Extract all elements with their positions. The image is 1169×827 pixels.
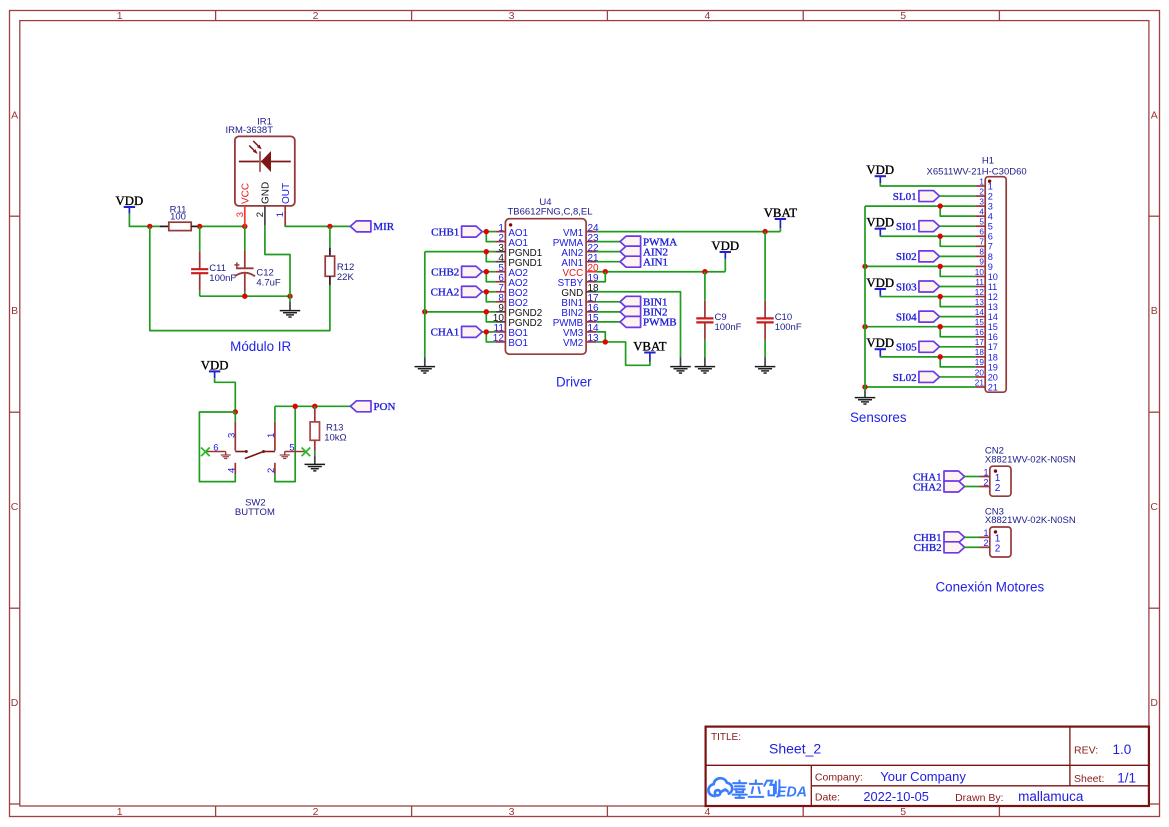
svg-text:6: 6 — [213, 442, 218, 453]
svg-text:CHA2: CHA2 — [913, 481, 942, 493]
svg-text:1/1: 1/1 — [1117, 770, 1136, 785]
svg-text:1: 1 — [983, 528, 988, 538]
svg-text:5: 5 — [900, 806, 906, 818]
svg-text:SI01: SI01 — [896, 221, 917, 233]
svg-text:VM2: VM2 — [563, 338, 583, 349]
svg-text:Conexión Motores: Conexión Motores — [936, 580, 1045, 595]
svg-text:15: 15 — [988, 322, 998, 332]
svg-text:13: 13 — [975, 298, 985, 307]
svg-text:2: 2 — [313, 10, 319, 22]
svg-text:14: 14 — [975, 308, 985, 317]
svg-text:Your Company: Your Company — [880, 769, 966, 784]
svg-text:8: 8 — [988, 252, 993, 262]
svg-text:20: 20 — [975, 368, 985, 377]
svg-text:IRM-3638T: IRM-3638T — [226, 125, 274, 136]
svg-text:21: 21 — [988, 382, 998, 392]
svg-text:D: D — [11, 697, 19, 709]
svg-text:2: 2 — [995, 483, 1001, 494]
svg-text:3: 3 — [509, 806, 515, 818]
svg-text:SL02: SL02 — [893, 372, 917, 384]
svg-text:16: 16 — [988, 332, 998, 342]
svg-text:7: 7 — [988, 242, 993, 252]
svg-text:12: 12 — [975, 288, 985, 297]
svg-text:VBAT: VBAT — [633, 340, 667, 354]
svg-text:VDD: VDD — [866, 163, 894, 177]
svg-text:4: 4 — [704, 10, 710, 22]
svg-text:3: 3 — [226, 433, 237, 438]
svg-text:Drawn By:: Drawn By: — [955, 792, 1003, 804]
svg-text:5: 5 — [289, 442, 294, 453]
svg-text:11: 11 — [975, 278, 984, 287]
svg-text:VCC: VCC — [240, 183, 251, 204]
svg-text:VDD: VDD — [866, 216, 894, 230]
svg-text:2: 2 — [255, 212, 266, 217]
svg-text:2: 2 — [983, 477, 988, 487]
svg-text:Driver: Driver — [556, 374, 592, 389]
svg-text:CHA2: CHA2 — [431, 287, 460, 299]
svg-text:2: 2 — [979, 187, 984, 196]
svg-text:5: 5 — [988, 222, 993, 232]
svg-text:BO1: BO1 — [508, 338, 528, 349]
svg-text:Sheet_2: Sheet_2 — [769, 740, 821, 756]
svg-text:SI05: SI05 — [896, 342, 917, 354]
svg-text:BUTTOM: BUTTOM — [235, 507, 275, 518]
svg-text:6: 6 — [979, 228, 984, 237]
svg-text:7: 7 — [979, 238, 984, 247]
svg-text:Módulo IR: Módulo IR — [230, 339, 291, 354]
svg-text:8: 8 — [979, 248, 984, 257]
svg-text:OUT: OUT — [281, 183, 292, 204]
svg-text:PON: PON — [373, 401, 395, 413]
svg-text:C: C — [11, 501, 19, 513]
svg-text:PWMB: PWMB — [643, 317, 677, 329]
svg-text:VDD: VDD — [116, 194, 144, 208]
svg-text:1: 1 — [275, 212, 286, 217]
svg-text:4: 4 — [226, 468, 237, 473]
svg-text:1: 1 — [117, 10, 123, 22]
svg-text:12: 12 — [988, 292, 998, 302]
svg-text:B: B — [11, 305, 18, 317]
svg-text:21: 21 — [975, 378, 985, 387]
svg-text:3: 3 — [988, 202, 993, 212]
svg-text:100nF: 100nF — [209, 273, 236, 284]
svg-text:B: B — [1151, 305, 1158, 317]
svg-text:REV:: REV: — [1074, 745, 1098, 757]
svg-text:Sheet:: Sheet: — [1074, 773, 1104, 785]
svg-text:Company:: Company: — [815, 772, 863, 784]
svg-text:VDD: VDD — [866, 276, 894, 290]
svg-text:16: 16 — [975, 328, 985, 337]
svg-text:1: 1 — [117, 806, 123, 818]
svg-text:CHB1: CHB1 — [431, 226, 459, 238]
svg-text:1: 1 — [988, 181, 993, 191]
svg-text:22K: 22K — [337, 272, 355, 283]
svg-text:MIR: MIR — [373, 221, 394, 233]
svg-text:1: 1 — [979, 177, 984, 186]
svg-text:CHB2: CHB2 — [431, 267, 459, 279]
svg-text:20: 20 — [988, 372, 998, 382]
svg-text:4: 4 — [704, 806, 710, 818]
svg-text:A: A — [1151, 109, 1158, 121]
svg-text:CHA1: CHA1 — [431, 327, 460, 339]
svg-text:9: 9 — [979, 258, 984, 267]
svg-text:GND: GND — [261, 182, 272, 204]
svg-text:mallamuca: mallamuca — [1018, 789, 1084, 804]
svg-text:3: 3 — [979, 197, 984, 206]
svg-text:14: 14 — [988, 312, 998, 322]
svg-text:X6511WV-21H-C30D60: X6511WV-21H-C30D60 — [927, 166, 1027, 177]
svg-text:VBAT: VBAT — [764, 206, 798, 220]
svg-text:VDD: VDD — [201, 358, 229, 372]
svg-text:CHB2: CHB2 — [914, 542, 942, 554]
svg-text:19: 19 — [975, 358, 985, 367]
svg-text:10kΩ: 10kΩ — [324, 433, 346, 444]
svg-text:Date:: Date: — [815, 792, 840, 804]
svg-text:18: 18 — [988, 352, 998, 362]
svg-text:TB6612FNG,C,8,EL: TB6612FNG,C,8,EL — [507, 206, 592, 217]
svg-text:4: 4 — [988, 212, 993, 222]
svg-text:2022-10-05: 2022-10-05 — [863, 789, 928, 804]
svg-text:1.0: 1.0 — [1113, 742, 1132, 757]
svg-text:SL01: SL01 — [893, 191, 917, 203]
svg-text:2: 2 — [266, 468, 277, 473]
svg-text:11: 11 — [988, 282, 998, 292]
svg-text:D: D — [1150, 697, 1158, 709]
svg-text:VDD: VDD — [866, 336, 894, 350]
svg-text:10: 10 — [975, 268, 985, 277]
svg-text:SI02: SI02 — [896, 251, 917, 263]
svg-text:4: 4 — [979, 207, 984, 216]
svg-text:3: 3 — [509, 10, 515, 22]
svg-text:5: 5 — [900, 10, 906, 22]
svg-text:A: A — [11, 109, 18, 121]
svg-text:18: 18 — [975, 348, 985, 357]
svg-text:2: 2 — [995, 544, 1001, 555]
svg-text:6: 6 — [988, 232, 993, 242]
svg-text:C: C — [1150, 501, 1158, 513]
svg-text:X8821WV-02K-N0SN: X8821WV-02K-N0SN — [985, 454, 1076, 465]
svg-text:3: 3 — [235, 212, 246, 217]
svg-text:1: 1 — [983, 467, 988, 477]
svg-text:Sensores: Sensores — [850, 410, 907, 425]
svg-text:15: 15 — [975, 318, 985, 327]
svg-text:5: 5 — [979, 218, 984, 227]
svg-text:2: 2 — [313, 806, 319, 818]
svg-text:100nF: 100nF — [715, 322, 742, 333]
svg-text:2: 2 — [988, 191, 993, 201]
svg-text:19: 19 — [988, 362, 998, 372]
svg-text:100: 100 — [170, 211, 186, 222]
svg-text:SI04: SI04 — [896, 311, 917, 323]
svg-text:VDD: VDD — [711, 239, 739, 253]
svg-text:AIN1: AIN1 — [643, 256, 668, 268]
svg-text:13: 13 — [988, 302, 998, 312]
svg-text:1: 1 — [266, 433, 277, 438]
svg-text:17: 17 — [988, 342, 998, 352]
svg-text:EDA: EDA — [777, 784, 807, 800]
svg-text:SI03: SI03 — [896, 281, 917, 293]
svg-text:10: 10 — [988, 272, 998, 282]
svg-text:TITLE:: TITLE: — [711, 732, 741, 743]
svg-text:4.7uF: 4.7uF — [256, 278, 280, 289]
svg-text:X8821WV-02K-N0SN: X8821WV-02K-N0SN — [985, 515, 1076, 526]
svg-text:17: 17 — [975, 338, 985, 347]
svg-text:H1: H1 — [982, 156, 994, 167]
svg-text:9: 9 — [988, 262, 993, 272]
svg-text:2: 2 — [983, 538, 988, 548]
svg-text:100nF: 100nF — [775, 322, 802, 333]
